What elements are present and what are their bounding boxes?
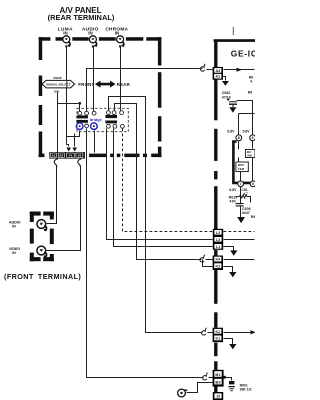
svg-text:bridge: bridge bbox=[90, 117, 103, 122]
svg-text:(FRONT TERMINAL): (FRONT TERMINAL) bbox=[4, 272, 81, 281]
svg-text:6.8V: 6.8V bbox=[229, 188, 237, 192]
svg-text:A1: A1 bbox=[215, 75, 220, 79]
svg-text:B1: B1 bbox=[215, 372, 221, 377]
svg-text:5.6V: 5.6V bbox=[243, 129, 251, 133]
svg-text:B3: B3 bbox=[215, 379, 221, 384]
svg-text:6: 6 bbox=[252, 136, 254, 140]
svg-text:K4: K4 bbox=[215, 258, 220, 262]
svg-text:IN: IN bbox=[12, 225, 16, 229]
svg-text:47K: 47K bbox=[229, 200, 236, 204]
svg-text:39K 1/2: 39K 1/2 bbox=[240, 388, 252, 392]
svg-text:C682: C682 bbox=[222, 91, 231, 95]
svg-text:A2: A2 bbox=[59, 154, 63, 158]
svg-text:FER: FER bbox=[238, 167, 245, 171]
svg-text:IN: IN bbox=[115, 30, 119, 35]
svg-text:GE-IC3: GE-IC3 bbox=[231, 48, 255, 58]
svg-text:K2: K2 bbox=[215, 330, 220, 334]
svg-text:L2: L2 bbox=[216, 238, 220, 242]
svg-text:J3: J3 bbox=[216, 395, 220, 399]
svg-text:8: 8 bbox=[238, 136, 240, 140]
svg-text:SW: SW bbox=[54, 90, 59, 94]
svg-text:L3: L3 bbox=[216, 231, 220, 235]
svg-text:5: 5 bbox=[252, 182, 254, 186]
svg-text:A3: A3 bbox=[215, 69, 220, 73]
svg-text:V2: V2 bbox=[78, 154, 82, 158]
svg-text:V1: V1 bbox=[69, 154, 73, 158]
svg-text:IN: IN bbox=[12, 251, 16, 255]
svg-text:47/16: 47/16 bbox=[222, 96, 231, 100]
svg-text:7: 7 bbox=[240, 182, 242, 186]
svg-text:IN: IN bbox=[88, 30, 92, 35]
svg-text:(REAR TERMINAL): (REAR TERMINAL) bbox=[48, 13, 115, 22]
svg-text:R9: R9 bbox=[251, 215, 255, 219]
svg-text:IN: IN bbox=[63, 30, 67, 35]
svg-text:.0047: .0047 bbox=[241, 211, 250, 215]
svg-text:AM: AM bbox=[247, 154, 252, 158]
svg-text:K3: K3 bbox=[215, 264, 220, 268]
svg-text:6.8V: 6.8V bbox=[227, 129, 235, 133]
svg-text:REAR: REAR bbox=[117, 82, 131, 87]
svg-text:R6: R6 bbox=[248, 90, 252, 94]
svg-text:FRONT: FRONT bbox=[78, 82, 94, 87]
svg-text:K1: K1 bbox=[215, 337, 220, 341]
svg-text:SW36: SW36 bbox=[53, 76, 62, 80]
svg-text:L1: L1 bbox=[216, 245, 220, 249]
svg-text:4.: 4. bbox=[250, 79, 253, 83]
svg-text:A1: A1 bbox=[51, 154, 55, 158]
